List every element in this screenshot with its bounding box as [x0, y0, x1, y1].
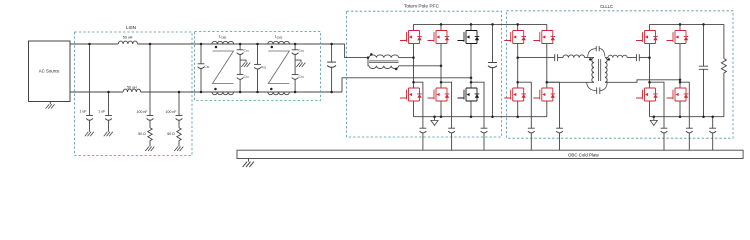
inductor 50uH top LISN	[118, 36, 137, 44]
parasitic capacitor output rail to cold plate	[709, 117, 716, 151]
polarity dot boost top	[370, 53, 373, 56]
wire: primary return to leg B	[547, 81, 594, 83]
polarity dot LCM1 top	[215, 46, 218, 49]
capacitor 100nF branch 2	[166, 92, 183, 128]
polarity dot LCM2 bottom	[270, 88, 273, 91]
capacitor CX1	[198, 44, 211, 92]
common-mode choke LCM1 bottom winding	[212, 92, 234, 95]
transistor Q2 PFC leg1 bottom	[400, 88, 422, 101]
transistor QA2 CLLLC leg A bottom	[504, 88, 526, 101]
capacitor CY4	[292, 60, 305, 92]
capacitor 100nF branch 1	[137, 44, 154, 128]
transistor QC2 CLLLC leg C bottom	[636, 88, 658, 101]
transistor QB2 CLLLC leg B bottom	[533, 88, 555, 101]
transistor QD1 CLLLC leg D top	[667, 31, 689, 44]
capacitor Cr2 resonant	[636, 54, 649, 61]
Totem Pole PFC dashed box	[347, 4, 502, 138]
parasitic capacitor leg C to cold plate	[650, 82, 668, 150]
common-mode choke LCM2 top winding	[268, 35, 290, 44]
svg-text:AC Source: AC Source	[39, 69, 60, 74]
coupled boost inductor top winding	[369, 55, 399, 58]
wire: secondary return to leg D	[605, 80, 680, 83]
PFC junction dots	[412, 23, 494, 118]
coupled boost inductor bottom winding	[369, 66, 399, 69]
CLLLC leg A vertical	[517, 24, 519, 116]
capacitor Cr1 resonant	[555, 54, 563, 61]
ground 100nF branch 2	[174, 147, 183, 151]
resistor load	[721, 24, 726, 116]
wire: N line step into PFC	[342, 78, 471, 92]
inductor 50uH bottom LISN	[123, 86, 141, 92]
capacitor CX2	[254, 44, 267, 92]
wire: AC neutral N bottom	[70, 91, 342, 93]
transistor QD2 CLLLC leg D bottom	[667, 88, 689, 101]
capacitor 1uF branch 2	[98, 92, 112, 132]
interwinding capacitance bottom arc	[587, 82, 608, 94]
wire: branch to lower boost winding	[368, 58, 369, 66]
transistor Q6 PFC leg3 bottom	[458, 88, 480, 101]
svg-text:Totem Pole PFC: Totem Pole PFC	[404, 4, 439, 10]
parasitic capacitor PFC leg3 to cold plate	[471, 82, 487, 150]
boost inductor core lines	[369, 61, 399, 63]
svg-text:50 Ω: 50 Ω	[138, 132, 146, 136]
CLLLC leg B vertical	[546, 24, 548, 116]
ground below AC source	[46, 102, 55, 109]
resistor 50 ohm branch 2	[167, 128, 181, 147]
polarity dot boost bottom	[395, 68, 398, 71]
polarity dot transformer primary	[589, 58, 592, 61]
svg-text:1 uF: 1 uF	[98, 110, 105, 114]
junction dots LISN and EMI	[88, 43, 333, 94]
parasitic capacitor CLLLC leg B to cold plate	[547, 82, 563, 150]
ground 1uF branch 2	[104, 132, 113, 136]
PFC bottom rail	[414, 116, 548, 118]
EMI filter dashed box	[195, 31, 321, 100]
svg-text:50 uH: 50 uH	[123, 36, 133, 40]
svg-text:OBC Cold Plate: OBC Cold Plate	[568, 152, 600, 157]
ground CY midpoint 1	[240, 60, 250, 67]
CLLLC leg D vertical	[679, 24, 681, 116]
svg-text:100 nF: 100 nF	[137, 110, 148, 114]
svg-text:50 uH: 50 uH	[127, 86, 137, 90]
polarity dot LCM1 bottom	[214, 88, 217, 91]
transistor Q3 PFC leg2 top	[428, 31, 450, 44]
ground CY midpoint 2	[295, 60, 305, 67]
wire: bottom winding to leg2	[399, 65, 441, 67]
transistor QB1 CLLLC leg B top	[533, 31, 555, 44]
parasitic capacitor PFC leg2 to cold plate	[441, 82, 455, 150]
CLLLC junction dots	[516, 23, 714, 118]
parasitic capacitor CLLLC leg A to cold plate	[518, 82, 535, 150]
choke LCM2 core Z	[268, 51, 289, 84]
PFC top rail	[414, 23, 547, 25]
inductor Lr2 resonant	[608, 55, 636, 57]
svg-text:100 nF: 100 nF	[166, 110, 177, 114]
ground 100nF branch 1	[145, 147, 154, 151]
capacitor CY1	[237, 44, 250, 60]
CLLLC secondary bottom rail	[650, 116, 724, 118]
transistor Q5 PFC leg3 top	[458, 31, 480, 44]
AC source box	[29, 41, 71, 102]
PFC leg1 vertical	[413, 24, 415, 116]
transistor Q4 PFC leg2 bottom	[428, 88, 450, 101]
capacitor 1uF branch 1	[79, 44, 92, 132]
wire: tank input from leg A	[518, 57, 555, 59]
CLLLC leg C vertical	[649, 24, 651, 116]
wire: L line step into PFC	[345, 44, 369, 58]
wire: secondary top to inductor	[605, 57, 608, 59]
LISN dashed box	[75, 25, 193, 156]
parasitic capacitor PFC leg1 to cold plate	[414, 82, 427, 150]
svg-text:CLLLC: CLLLC	[600, 4, 613, 9]
common-mode choke LCM2 bottom winding	[268, 92, 290, 95]
transistor Q1 PFC leg1 top	[400, 31, 422, 44]
ground 1uF branch 1	[85, 132, 94, 136]
transistor QC1 CLLLC leg C top	[636, 31, 658, 44]
PFC leg3 vertical	[470, 24, 472, 116]
chassis arrow CLLLC secondary	[650, 117, 657, 126]
PFC leg2 vertical	[440, 24, 442, 116]
OBC cold plate bar	[237, 150, 743, 158]
ground cold plate	[243, 159, 254, 168]
resistor 50 ohm branch 1	[138, 128, 152, 147]
transistor QA1 CLLLC leg A top	[504, 31, 526, 44]
capacitor output DC	[699, 24, 708, 116]
svg-text:50 Ω: 50 Ω	[167, 132, 175, 136]
choke LCM1 core Z	[213, 51, 234, 84]
transformer core lines	[598, 59, 600, 81]
chassis arrow PFC	[431, 117, 438, 126]
transformer T1 secondary winding	[605, 58, 607, 83]
polarity dot transformer secondary	[608, 58, 611, 61]
capacitor PFC input X-cap	[327, 44, 336, 92]
capacitor PFC DC link	[488, 24, 497, 116]
capacitor CY2	[237, 60, 250, 92]
polarity dot LCM2 top	[271, 46, 274, 49]
junction dot L split	[367, 56, 370, 59]
wire: AC line L top	[70, 43, 345, 45]
wire: top winding to leg1	[399, 57, 414, 59]
interwinding capacitance top arc	[588, 46, 605, 57]
svg-text:LISN: LISN	[126, 25, 136, 30]
common-mode choke LCM1 top winding	[212, 35, 234, 44]
inductor Lr1 resonant	[563, 55, 594, 58]
parasitic capacitor leg D to cold plate	[680, 82, 693, 150]
svg-text:1 uF: 1 uF	[79, 110, 86, 114]
capacitor CY3	[292, 44, 305, 60]
transformer T1 primary winding	[592, 58, 594, 83]
CLLLC dashed box	[507, 4, 734, 138]
CLLLC secondary top rail	[650, 23, 724, 25]
